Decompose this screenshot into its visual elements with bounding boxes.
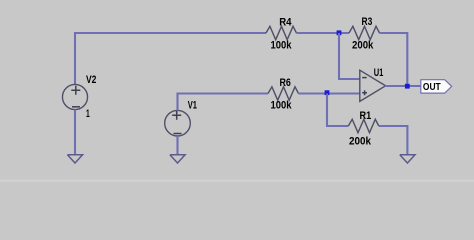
resistor R4 — [266, 26, 297, 39]
svg-text:U1: U1 — [374, 67, 384, 79]
wire: V1 top up to corner then right to R6 — [178, 94, 269, 111]
wire: V1 bottom to ground — [176, 136, 178, 155]
wire: feedback vertical down to minus input — [338, 33, 340, 79]
node junction J1 feedback top — [337, 30, 342, 35]
wire: J2 vertical down to R1 row — [326, 94, 328, 127]
voltage source V1 — [165, 110, 191, 136]
svg-text:R3: R3 — [362, 16, 373, 28]
resistor R1 — [348, 119, 379, 132]
svg-text:R6: R6 — [280, 77, 291, 89]
node junction J3 output — [405, 84, 410, 89]
ground (V1) — [170, 155, 185, 163]
U1 minus mark — [362, 77, 366, 79]
svg-text:200k: 200k — [352, 40, 374, 52]
V2 minus mark — [72, 106, 80, 108]
wire: V2 bottom to ground — [74, 110, 76, 156]
wire: R6 to plus input — [299, 92, 361, 94]
svg-text:R4: R4 — [279, 17, 292, 29]
wire: R3 to right corner — [380, 32, 408, 34]
svg-text:OUT: OUT — [423, 82, 441, 93]
resistor R3 — [349, 26, 380, 39]
V2 plus mark — [71, 86, 80, 95]
svg-text:V1: V1 — [188, 100, 197, 112]
wire: top row V2 corner to R4 — [75, 32, 266, 34]
svg-text:V2: V2 — [86, 74, 96, 86]
svg-text:1: 1 — [86, 108, 90, 120]
wire: R1 right lead to corner then down to ground — [379, 126, 408, 155]
svg-text:R1: R1 — [360, 110, 372, 122]
wire: minus input horizontal — [338, 78, 360, 80]
wire: R1 row left lead — [326, 125, 348, 127]
V1 minus mark — [174, 133, 182, 135]
wire: right vertical down to output node — [406, 32, 408, 86]
V1 plus mark — [172, 111, 181, 120]
svg-text:200k: 200k — [349, 136, 372, 148]
resistor R6 — [268, 87, 299, 100]
node junction J2 plus input — [325, 90, 330, 95]
wire: R4 to feedback node — [297, 32, 350, 34]
wire: op-amp output — [385, 85, 421, 87]
svg-text:100k: 100k — [271, 39, 293, 51]
ground (R1) — [400, 155, 415, 163]
net flag OUT — [421, 80, 452, 93]
voltage source V2 — [62, 84, 87, 109]
U1 plus mark — [362, 90, 367, 95]
svg-text:100k: 100k — [271, 100, 293, 112]
ground (V2) — [67, 155, 82, 163]
wire: V2 vertical from corner down to source top — [74, 32, 76, 85]
op-amp U1 — [360, 70, 386, 101]
